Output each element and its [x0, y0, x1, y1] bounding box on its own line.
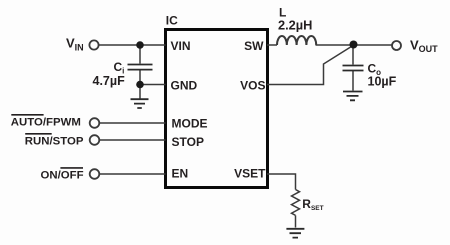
wire inductor to output node [316, 44, 393, 46]
svg-text:VSET: VSET [234, 167, 266, 181]
svg-text:AUTO/FPWM: AUTO/FPWM [11, 117, 81, 129]
svg-text:2.2µH: 2.2µH [278, 18, 312, 33]
IC U1 box [166, 30, 268, 188]
wire capacitor Co bottom to ground [352, 70, 354, 91]
capacitor Co plates [343, 66, 364, 71]
terminal RUN/STOP [90, 135, 100, 145]
terminal ON/OFF [90, 169, 100, 179]
svg-text:EN: EN [172, 167, 189, 181]
wire VOS pin feedback path [267, 46, 353, 85]
wire VSET pin to resistor RSET [267, 174, 296, 190]
svg-text:10µF: 10µF [368, 75, 397, 89]
ground Ci [131, 99, 149, 108]
svg-text:IC: IC [166, 14, 178, 28]
svg-text:STOP: STOP [172, 135, 204, 149]
inductor L1 [277, 36, 316, 45]
wire EN [100, 173, 166, 175]
terminal AUTO/FPWM [90, 118, 100, 128]
wire VIN terminal to input node [99, 44, 166, 46]
wire capacitor Ci top [139, 45, 141, 64]
ground RSET [286, 229, 304, 238]
capacitor Ci plates [128, 65, 153, 70]
wire SW pin to inductor [267, 44, 277, 46]
terminal VIN [89, 40, 98, 49]
svg-text:RUN/STOP: RUN/STOP [25, 136, 84, 148]
wire output node down to capacitor Co [352, 45, 354, 65]
junction node input [136, 41, 144, 49]
svg-text:4.7µF: 4.7µF [93, 74, 126, 88]
svg-text:VIN: VIN [171, 39, 191, 53]
wire GND node to GND pin [140, 84, 166, 86]
terminal VOUT [392, 41, 401, 50]
wire resistor RSET to ground [295, 215, 297, 227]
svg-text:GND: GND [171, 78, 198, 92]
resistor RSET zigzag [292, 190, 300, 216]
junction node GND/Ci [136, 81, 144, 89]
svg-text:MODE: MODE [172, 116, 208, 130]
svg-text:ON/OFF: ON/OFF [41, 170, 84, 182]
svg-text:VOS: VOS [240, 78, 265, 92]
junction node SW/output [350, 41, 358, 49]
wire STOP [100, 139, 166, 141]
wire capacitor Ci bottom to GND node [139, 71, 141, 99]
svg-text:SW: SW [244, 39, 264, 53]
wire MODE [100, 122, 166, 124]
ground Co [343, 92, 363, 101]
